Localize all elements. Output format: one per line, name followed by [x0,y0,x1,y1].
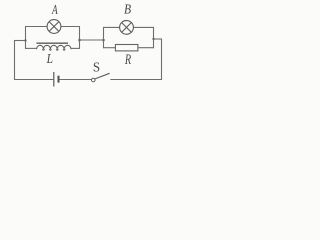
svg-text:S: S [93,59,100,74]
wire: inductor branch left lead [25,47,37,49]
lamp A [47,20,61,34]
junction dot right [152,38,154,40]
svg-text:L: L [46,51,53,66]
junction dot left [24,39,26,41]
wire: lamp B branch left [103,26,120,28]
wire: bottom right segment [110,79,162,81]
junction dot block1 right [78,39,81,42]
background [0,0,169,94]
inductor L core line [37,42,69,44]
wire: bottom left segment [14,79,53,81]
resistor R box [115,45,137,51]
wire: right outer vertical [161,39,163,81]
battery short plate [58,76,60,83]
wire: block2 right bar [153,27,155,48]
wire: left tap [14,40,26,42]
wire: right tap [154,38,163,40]
wire: left outer vertical [14,40,16,80]
wire: block2 left bar [103,27,105,48]
wire: block1 right bar [79,26,81,49]
inductor L coil [37,45,71,49]
wire: lamp A branch left [25,26,47,28]
wire: resistor right lead [138,47,154,49]
wire: bottom battery-to-switch segment [59,79,91,81]
wire: inductor branch right lead [71,47,80,49]
battery long plate [53,72,55,87]
lamp B [120,21,134,35]
switch S pivot circle [92,78,96,82]
switch S lever [95,73,110,79]
wire: resistor left lead [103,47,115,49]
svg-text:R: R [124,52,131,68]
svg-text:A: A [51,1,58,18]
svg-text:B: B [124,1,131,16]
wire: lamp A branch right [61,26,80,28]
wire: block1 left bar [25,26,27,49]
wire: middle connector [80,39,104,41]
inductor L coil bottom loops [43,49,65,50]
wire: lamp B branch right [133,26,154,28]
junction dot block2 left [102,39,105,42]
